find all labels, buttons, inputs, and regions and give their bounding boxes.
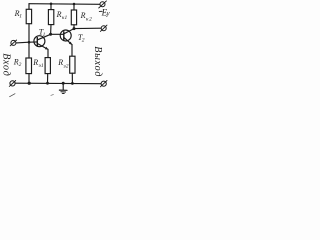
svg-text:Вход: Вход — [1, 53, 12, 76]
svg-text:2: 2 — [19, 62, 22, 68]
svg-text:э2: э2 — [63, 63, 68, 69]
svg-text:R: R — [80, 11, 86, 20]
svg-text:R: R — [32, 58, 38, 67]
svg-text:1: 1 — [19, 13, 22, 19]
svg-text:2: 2 — [82, 38, 85, 44]
svg-text:к2: к2 — [86, 17, 92, 23]
svg-text:к1: к1 — [62, 15, 68, 21]
svg-text:э1: э1 — [38, 63, 43, 69]
svg-text:Выход: Выход — [92, 46, 103, 77]
svg-text:у: у — [106, 9, 111, 17]
svg-text:R: R — [57, 58, 63, 67]
svg-text:R: R — [56, 10, 62, 19]
svg-text:1: 1 — [43, 32, 46, 38]
